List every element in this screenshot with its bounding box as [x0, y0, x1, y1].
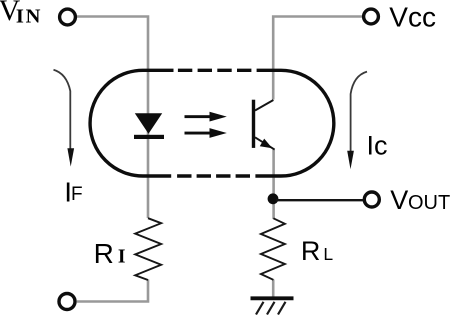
svg-text:F: F	[71, 184, 83, 205]
svg-text:L: L	[323, 244, 333, 264]
svg-text:V: V	[390, 185, 408, 215]
svg-text:I: I	[367, 130, 375, 160]
svg-text:c: c	[374, 130, 388, 160]
svg-text:OUT: OUT	[408, 192, 450, 214]
svg-text:I: I	[118, 246, 126, 267]
svg-text:Vcc: Vcc	[389, 1, 436, 32]
svg-text:R: R	[301, 236, 321, 266]
svg-text:IN: IN	[16, 6, 42, 28]
svg-text:R: R	[94, 238, 114, 269]
